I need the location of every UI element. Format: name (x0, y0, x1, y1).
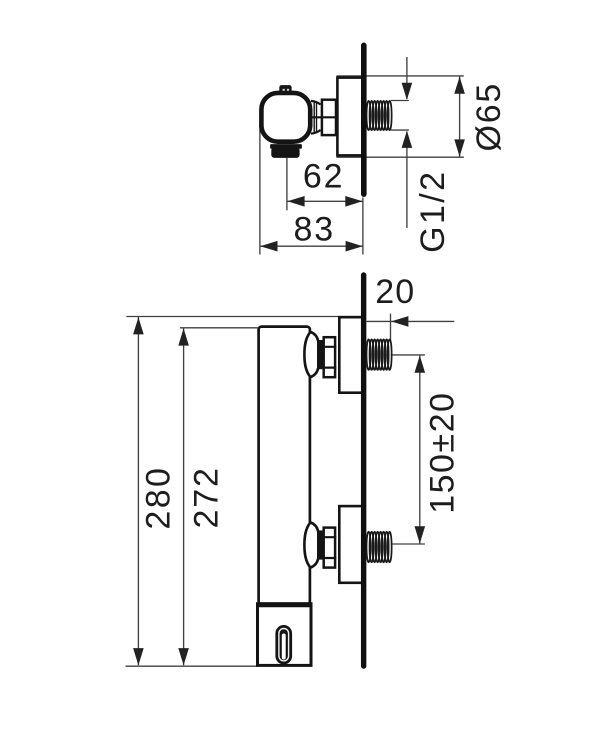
thread G1/2 bottom reference line (391, 129, 409, 131)
lower union nut (324, 528, 335, 568)
arrow 83 left (260, 241, 277, 252)
lower union nut chamfer lines (323, 537, 337, 558)
svg-text:150±20: 150±20 (424, 392, 462, 514)
dimension 20 line (367, 320, 455, 322)
arrow diameter 65 down (454, 139, 465, 156)
svg-text:20: 20 (375, 273, 415, 311)
neck trumpet top curve (top view) (311, 101, 321, 105)
svg-text:272: 272 (187, 466, 225, 528)
dimension 20 tick (thread end) (390, 314, 392, 341)
hose outlet slot (282, 634, 286, 660)
arrow diameter 65 up (454, 77, 465, 94)
knob (squircle, top view) (261, 93, 310, 142)
dimension 83 extension line (from knob left edge) (259, 124, 261, 255)
arrow 150+-20 up (415, 356, 426, 373)
arrow 20 pointing left (391, 316, 408, 327)
diameter 65 top extension line (337, 75, 464, 77)
threads G1/2 (top view) (367, 101, 392, 130)
escutcheon plate (top view, side) (337, 78, 363, 156)
upper union waist bar (317, 340, 323, 369)
dimension 150+-20 bottom extension line (391, 543, 425, 545)
svg-text:G1/2: G1/2 (414, 170, 452, 253)
hose outlet inner ring (279, 629, 289, 661)
outlet housing box (258, 604, 312, 666)
arrow 272 down (178, 648, 189, 665)
dimension line 150+-20 (419, 355, 421, 543)
upper union nut (324, 337, 335, 377)
svg-text:280: 280 (139, 466, 177, 530)
upper union nut chamfer lines (323, 347, 337, 368)
hose outlet capsule (275, 625, 292, 664)
upper escutcheon plate (339, 317, 363, 393)
arrow 280 down (133, 648, 144, 665)
dimension 62 extension line (from knob base center) (286, 158, 288, 210)
dimension line diameter 65 (459, 76, 461, 157)
mixer body bar (259, 327, 310, 604)
svg-text:83: 83 (293, 210, 334, 248)
lower union bell (304, 522, 318, 567)
arrow 62 left (287, 196, 304, 207)
svg-text:62: 62 (303, 158, 344, 196)
knob tab dots (283, 89, 285, 91)
connector nut mid line (top view) (312, 116, 337, 118)
dimension line G1/2 lower segment (406, 132, 408, 228)
dimension line 280 (137, 317, 139, 665)
arrow 150+-20 down (415, 526, 426, 543)
arrow G1/2 down (at thread top) (402, 83, 413, 100)
dimension 62/83 right extension line (wall face) (362, 198, 364, 255)
upper union bell (304, 332, 318, 377)
arrow G1/2 up (at thread bottom) (402, 131, 413, 148)
wall line (top view) (361, 45, 367, 194)
knob base flange (270, 144, 302, 149)
arrow 83 right (346, 241, 363, 252)
knob collar lines (top view) (314, 102, 316, 134)
diameter 65 bottom extension line (337, 156, 464, 158)
dimension line 83 (260, 245, 363, 247)
neck trumpet bottom curve (top view) (311, 130, 321, 134)
upper supply threads (367, 339, 392, 370)
dimension line 272 (183, 328, 185, 665)
connector nut (top view) (322, 100, 336, 135)
lower supply threads (367, 532, 392, 563)
arrow 280 up (133, 317, 144, 334)
dimension 280/272 bottom extension line (126, 665, 259, 667)
thread G1/2 top reference line (391, 100, 409, 102)
svg-text:Ø65: Ø65 (470, 82, 508, 152)
dimension 272 top extension line (180, 327, 258, 329)
dimension 150+-20 top extension line (391, 354, 425, 356)
lower union waist bar (317, 530, 323, 559)
dimension 280 top extension line (126, 316, 361, 318)
dimension line 62 (287, 200, 363, 202)
outlet housing divider (thick top edge) (256, 602, 313, 607)
arrow 272 up (178, 328, 189, 345)
knob base block (271, 147, 299, 158)
arrow 62 right (345, 196, 362, 207)
lower escutcheon plate (339, 506, 363, 583)
wall line (bottom view) (361, 275, 366, 666)
dimension line G1/2 upper segment (406, 57, 408, 99)
knob top tab (279, 85, 291, 92)
